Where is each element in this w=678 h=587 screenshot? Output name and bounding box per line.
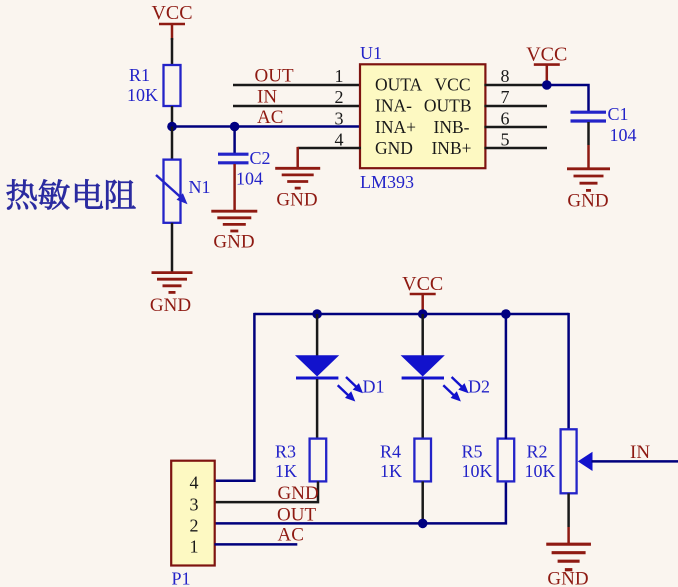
wire bus to R5 [505, 314, 508, 439]
wire U1 pin 2 (IN net) [233, 105, 361, 108]
svg-text:104: 104 [236, 169, 263, 189]
svg-text:C2: C2 [250, 148, 271, 168]
potentiometer R2 [525, 429, 577, 493]
svg-text:VCC: VCC [526, 44, 567, 66]
net label IN [257, 87, 277, 108]
svg-text:7: 7 [501, 87, 510, 107]
wire P1 pin 1 (AC net) [215, 543, 298, 546]
svg-text:INA-: INA- [375, 96, 412, 116]
wire IN to R2 wiper [592, 460, 678, 463]
svg-text:VCC: VCC [402, 273, 443, 295]
wire VCC node to C1 [547, 85, 589, 111]
net label AC (pin 1) [278, 525, 304, 546]
svg-text:GND: GND [213, 232, 254, 253]
net label OUT (pin 2) [277, 504, 316, 525]
svg-text:5: 5 [501, 130, 510, 150]
wire C2 to ground [233, 164, 236, 211]
wire D1 to R3 [316, 379, 319, 439]
wire bus to D2 [421, 314, 424, 356]
svg-text:GND: GND [567, 190, 608, 211]
junction node A [167, 122, 177, 132]
junction node B [230, 122, 240, 132]
wire U1 pin 6 stub [484, 126, 547, 129]
svg-text:INA+: INA+ [375, 117, 416, 137]
U1 pin number 1 [335, 66, 344, 86]
wire VCC to R1 [171, 38, 174, 66]
svg-text:C1: C1 [608, 104, 629, 124]
U1 pin number 5 [501, 130, 510, 150]
label 热敏电阻 (thermistor) [7, 179, 136, 209]
svg-text:R5: R5 [462, 441, 483, 461]
resistor R3 [275, 439, 326, 482]
capacitor C1 [571, 104, 637, 145]
wire U1 pin 1 (OUT net) [233, 84, 361, 87]
svg-text:10K: 10K [127, 85, 158, 105]
svg-text:N1: N1 [189, 177, 211, 197]
svg-text:1: 1 [190, 537, 199, 557]
wire R4 to OUT bus [421, 481, 424, 523]
thermistor N1 [156, 160, 211, 223]
wire U1 pin 5 stub [484, 147, 547, 150]
wire left bus to P1 pin 4 [215, 313, 256, 482]
svg-text:OUT: OUT [277, 504, 316, 525]
wire OUT bus (P1 pin 2 to R5) [215, 481, 506, 523]
svg-text:U1: U1 [360, 43, 382, 63]
svg-text:2: 2 [335, 87, 344, 107]
svg-text:AC: AC [257, 107, 283, 128]
wire N1 to ground [171, 223, 174, 272]
wiper arrow R2 [578, 452, 593, 471]
svg-text:R2: R2 [527, 441, 548, 461]
ground GND (N1) [150, 273, 193, 316]
svg-text:D2: D2 [468, 377, 490, 397]
svg-text:INB+: INB+ [431, 138, 471, 158]
svg-text:AC: AC [278, 525, 304, 546]
wire R2 to ground [567, 493, 570, 543]
net label IN [630, 442, 650, 463]
svg-text:R4: R4 [380, 441, 401, 461]
svg-text:6: 6 [501, 108, 510, 128]
power VCC supply (bus) [402, 273, 443, 314]
svg-text:IN: IN [257, 87, 277, 108]
svg-text:8: 8 [501, 66, 510, 86]
ground GND (C1) [567, 169, 610, 212]
wire R3 to P1 pin 3 [215, 481, 319, 502]
net label AC [257, 107, 283, 128]
wire VCC bus [254, 313, 568, 316]
svg-text:4: 4 [190, 473, 199, 493]
junction D1 top [312, 309, 322, 319]
junction U1 pin 8 node [542, 80, 552, 90]
svg-text:10K: 10K [462, 461, 493, 481]
svg-text:VCC: VCC [151, 2, 192, 24]
svg-text:1: 1 [335, 66, 344, 86]
power VCC supply (U1 pin 8) [526, 44, 567, 86]
svg-text:P1: P1 [172, 569, 191, 587]
svg-text:OUT: OUT [255, 66, 294, 87]
junction VCC bus center [418, 309, 428, 319]
wire U1 pin 4 to ground [298, 147, 361, 168]
svg-text:3: 3 [335, 108, 344, 128]
svg-text:3: 3 [190, 494, 199, 514]
ground GND (U1 pin 4) [275, 168, 320, 210]
svg-text:INB-: INB- [434, 117, 470, 137]
net label GND (pin 3) [278, 483, 319, 504]
svg-text:GND: GND [278, 483, 319, 504]
svg-text:1K: 1K [275, 461, 297, 481]
junction R4 / OUT bus [418, 519, 428, 529]
resistor R4 [380, 439, 431, 482]
IC U1 LM393 [360, 43, 485, 192]
wire C1 to ground [587, 122, 590, 169]
svg-text:OUTB: OUTB [424, 96, 472, 116]
wire bus to D1 [316, 314, 319, 356]
U1 pin number 4 [335, 130, 344, 150]
svg-text:104: 104 [610, 125, 637, 145]
wire node A to N1 [171, 127, 174, 161]
svg-text:10K: 10K [525, 461, 556, 481]
connector P1 [171, 461, 215, 587]
svg-text:LM393: LM393 [360, 172, 414, 192]
wire D2 to R4 [421, 379, 424, 439]
resistor R1 [127, 65, 181, 106]
capacitor C2 [218, 148, 271, 189]
svg-text:4: 4 [335, 130, 344, 150]
wire U1 pin 7 stub [484, 105, 547, 108]
svg-text:R1: R1 [129, 65, 150, 85]
wire U1 pin 8 to VCC node [484, 84, 547, 87]
LED D2 [401, 355, 490, 401]
junction R5 top [501, 309, 511, 319]
power VCC supply (R1 top) [151, 2, 192, 40]
svg-text:GND: GND [276, 190, 317, 211]
U1 pin number 7 [501, 87, 510, 107]
ground GND (C2) [211, 211, 257, 252]
wire node B to C2 [233, 127, 236, 154]
U1 pin number 2 [335, 87, 344, 107]
wire node B to U1 pin 3 [235, 125, 361, 128]
resistor R5 [462, 439, 515, 482]
svg-text:GND: GND [375, 138, 413, 158]
svg-text:VCC: VCC [435, 75, 471, 95]
U1 pin number 8 [501, 66, 510, 86]
LED D1 [295, 355, 385, 401]
svg-text:OUTA: OUTA [375, 75, 423, 95]
svg-text:2: 2 [190, 516, 199, 536]
net label OUT [255, 66, 294, 87]
ground GND (R2) [546, 544, 591, 587]
svg-text:GND: GND [547, 569, 588, 587]
svg-text:D1: D1 [363, 377, 385, 397]
wire R1 to node A [171, 106, 174, 127]
svg-text:R3: R3 [275, 441, 296, 461]
U1 pin number 6 [501, 108, 510, 128]
wire node A to node B (AC net) [172, 125, 235, 128]
svg-text:GND: GND [150, 295, 191, 316]
svg-text:IN: IN [630, 442, 650, 463]
svg-text:1K: 1K [380, 461, 402, 481]
wire bus to R2 [567, 313, 570, 430]
U1 pin number 3 [335, 108, 344, 128]
